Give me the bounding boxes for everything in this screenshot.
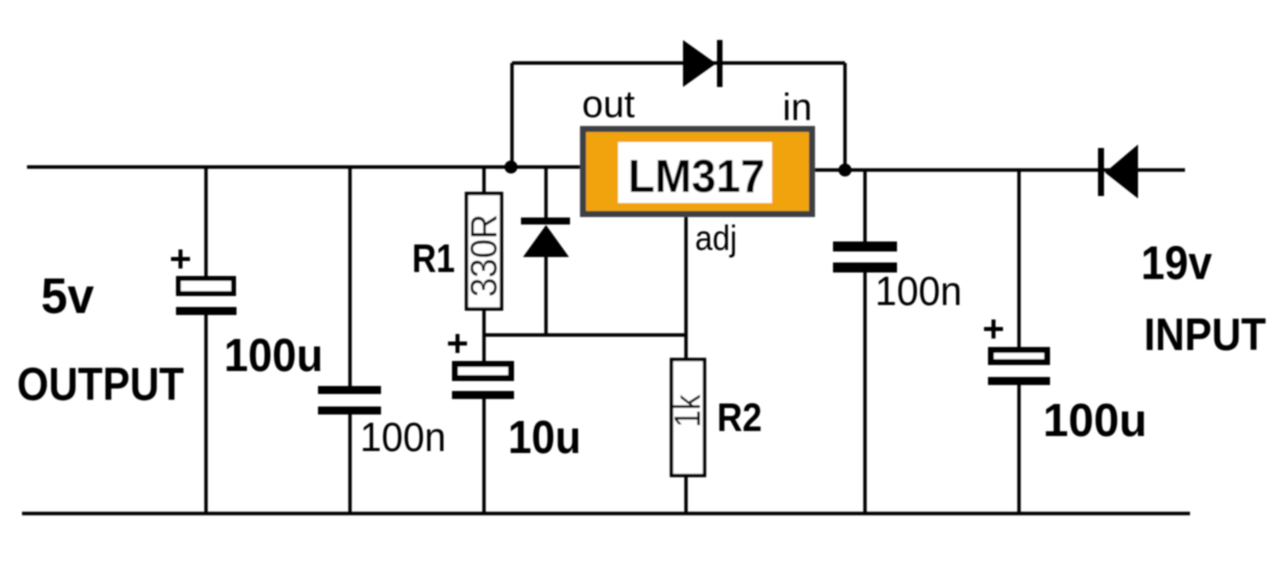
- wire D2 bottom stub: [544, 257, 547, 335]
- capacitor C4 100n (input): [833, 242, 897, 273]
- svg-text:in: in: [783, 87, 813, 129]
- svg-text:R2: R2: [717, 396, 762, 440]
- node junction dot left (output pin): [505, 161, 518, 174]
- wire C2 top branch: [348, 167, 351, 387]
- resistor R1 body: [467, 194, 502, 310]
- svg-text:adj: adj: [695, 219, 737, 258]
- svg-text:OUTPUT: OUTPUT: [17, 358, 184, 410]
- wire C1 bottom branch: [204, 315, 207, 514]
- wire C2 bottom branch: [348, 414, 351, 514]
- svg-text:out: out: [582, 84, 635, 126]
- svg-text:10u: 10u: [508, 411, 581, 463]
- wire R1 bottom to C3: [482, 310, 485, 362]
- wire C5 bottom branch: [1017, 385, 1020, 514]
- svg-text:5v: 5v: [41, 268, 94, 324]
- diode D2 protection diode (vertical): [521, 218, 570, 258]
- svg-text:1k: 1k: [667, 394, 708, 427]
- svg-text:100n: 100n: [875, 268, 962, 314]
- wire feedback left vertical: [510, 63, 513, 167]
- svg-text:100n: 100n: [360, 414, 446, 460]
- svg-text:100u: 100u: [1043, 394, 1147, 446]
- wire feedback top horizontal: [512, 61, 845, 64]
- svg-text:R1: R1: [412, 237, 455, 281]
- wire feedback right vertical: [843, 63, 846, 170]
- wire C5 top branch: [1017, 170, 1020, 348]
- node junction dot right (input pin): [839, 164, 852, 177]
- wire D2 top stub: [544, 167, 547, 218]
- wire adj mid horizontal: [484, 333, 686, 336]
- capacitor C3 10u electrolytic (adj bypass): [448, 334, 514, 399]
- wire top-left rail (output rail): [27, 165, 580, 168]
- diode D1 protection diode (top): [683, 40, 723, 87]
- svg-text:100u: 100u: [224, 329, 323, 381]
- wire top-right rail (input rail): [815, 168, 1185, 171]
- regulator U1 LM317 body: [583, 129, 812, 214]
- wire R1 top stub: [482, 167, 485, 192]
- capacitor C1 100u electrolytic (output): [171, 250, 237, 316]
- wire C4 bottom branch: [863, 272, 866, 514]
- resistor R2 body: [672, 360, 705, 476]
- svg-text:INPUT: INPUT: [1144, 309, 1266, 360]
- wire C3 bottom branch: [482, 398, 485, 514]
- wire C4 top branch: [863, 170, 866, 242]
- capacitor C5 100u electrolytic (input): [984, 320, 1050, 386]
- svg-text:330R: 330R: [464, 214, 505, 297]
- svg-text:19v: 19v: [1141, 236, 1212, 289]
- wire R2 bottom stub: [684, 476, 687, 514]
- wire bottom ground rail: [22, 512, 1190, 515]
- wire C1 top branch: [204, 167, 207, 277]
- wire adj vertical from U1: [684, 217, 687, 360]
- capacitor C2 100n (output): [318, 386, 381, 415]
- svg-text:LM317: LM317: [628, 150, 765, 202]
- diode D3 input diode: [1098, 145, 1138, 199]
